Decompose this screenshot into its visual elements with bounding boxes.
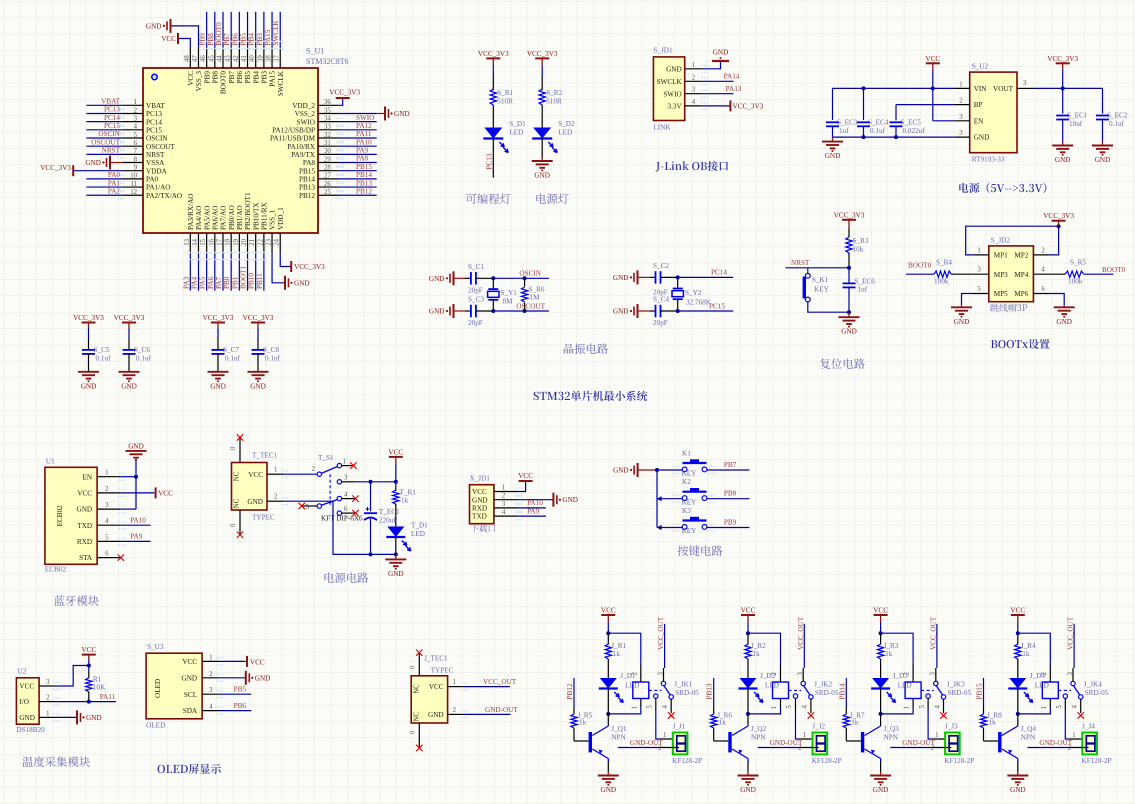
wire to relay coil [881, 633, 914, 664]
IC U2 DS18B20 body [16, 678, 39, 724]
U1 pin 24 VDD_1 [279, 233, 281, 253]
caption wen-du-cai-ji-mo-kuai [22, 756, 90, 767]
power VCC (download) [519, 480, 533, 482]
wire to C1 [454, 277, 466, 279]
svg-text:GND: GND [19, 714, 35, 722]
svg-text:2: 2 [692, 74, 696, 81]
wire [541, 66, 543, 75]
U1 pin 32 PA11/USB/DM [318, 137, 338, 139]
U1(BT) pin 2 VCC [97, 492, 121, 494]
svg-text:OLED: OLED [154, 679, 162, 698]
ground GND (JD2 pin5) [961, 306, 963, 308]
ground GND (C1) [453, 271, 455, 285]
svg-text:VIN: VIN [974, 85, 988, 93]
svg-text:5: 5 [105, 534, 109, 541]
svg-text:SWIO: SWIO [663, 90, 681, 98]
ground GND (S_C7) [217, 371, 219, 373]
TEC1 top NC pin [239, 438, 241, 463]
svg-text:VCC: VCC [161, 35, 176, 43]
svg-text:VCC_3V3: VCC_3V3 [527, 50, 558, 58]
resistor S_R2 510R [539, 89, 545, 105]
resistor S_R4 100k [934, 271, 951, 277]
ground GND (U2 left) [832, 137, 834, 142]
U1 pin 3 PC14 [123, 121, 143, 123]
wire GND rail [283, 501, 396, 554]
capacitor S_C3 20pF [465, 310, 471, 312]
svg-text:PA12: PA12 [356, 122, 372, 130]
S1 pin3 lead [342, 481, 355, 483]
svg-text:GND: GND [534, 172, 550, 180]
svg-text:VSS_1: VSS_1 [269, 209, 277, 230]
svg-text:J_Q4: J_Q4 [1021, 725, 1037, 733]
svg-text:PB1: PB1 [231, 276, 239, 289]
svg-text:PB7: PB7 [228, 71, 236, 84]
svg-text:S_C8: S_C8 [263, 346, 279, 354]
svg-text:PC15: PC15 [104, 122, 120, 130]
wire VCC to switch [283, 473, 317, 475]
wire VDD_1 [280, 253, 291, 266]
svg-text:S_EC4: S_EC4 [868, 119, 889, 127]
svg-text:14: 14 [192, 238, 199, 245]
svg-text:20pF: 20pF [653, 319, 668, 327]
JD2 pins row 2 [973, 273, 989, 275]
wire pin1 loop to VCC_3V3 [966, 226, 1059, 255]
U1 pin 19 PB1/AO [238, 233, 240, 253]
svg-text:VCC: VCC [77, 490, 92, 498]
svg-text:510R: 510R [497, 98, 513, 106]
svg-text:6: 6 [1041, 286, 1045, 293]
svg-text:2: 2 [959, 98, 963, 105]
svg-text:5: 5 [1056, 705, 1063, 709]
wire PC14 rail [678, 276, 734, 278]
svg-text:9: 9 [134, 165, 138, 172]
svg-text:PB0/AO: PB0/AO [228, 205, 236, 230]
svg-text:3: 3 [1023, 80, 1027, 87]
wire key K1 left [657, 469, 682, 471]
svg-text:PB10/TX: PB10/TX [252, 202, 260, 230]
svg-text:KEY: KEY [682, 498, 698, 506]
svg-text:22: 22 [257, 238, 264, 245]
caption fu-wei-dian-lu [820, 358, 865, 369]
LED S_D1 [484, 128, 502, 139]
svg-text:GND-OUT: GND-OUT [630, 739, 663, 747]
svg-text:MP5: MP5 [994, 290, 1008, 298]
wire net OSCIN [86, 137, 122, 139]
U1 pin 14 PA4/AO [197, 233, 199, 253]
svg-text:S_C1: S_C1 [468, 263, 484, 271]
svg-text:T_TEC1: T_TEC1 [252, 452, 278, 460]
svg-text:41: 41 [241, 55, 248, 62]
svg-text:GND: GND [250, 382, 266, 390]
svg-text:VCC: VCC [81, 646, 96, 654]
svg-text:MP4: MP4 [1014, 271, 1028, 279]
svg-text:29: 29 [324, 156, 331, 163]
svg-text:OSCIN: OSCIN [519, 270, 541, 278]
svg-text:0.1uf: 0.1uf [96, 355, 112, 363]
svg-text:GND-OUT: GND-OUT [902, 739, 935, 747]
wire net PB6 [219, 710, 252, 712]
svg-text:K1: K1 [682, 450, 691, 458]
svg-text:S_EC5: S_EC5 [901, 119, 922, 127]
wire GND bus [638, 469, 657, 471]
svg-text:28: 28 [324, 165, 331, 172]
U1(BT) pin 3 GND [97, 508, 121, 510]
svg-text:6: 6 [344, 506, 348, 513]
caption dian-yuan-dian-lu [324, 572, 368, 583]
wire VSS_1 [272, 253, 285, 282]
wire [541, 139, 543, 158]
resistor J_R8 1k [983, 707, 985, 714]
svg-text:U1: U1 [46, 458, 55, 466]
resistor J_R3 1k [880, 633, 882, 644]
svg-text:PA2: PA2 [108, 187, 121, 195]
svg-text:NC: NC [234, 498, 241, 508]
svg-text:0: 0 [410, 730, 417, 734]
JD1 pin 2 SWCLK [685, 80, 703, 82]
relay J_JK2 contacts [789, 689, 802, 691]
svg-text:PB12: PB12 [299, 192, 315, 200]
wire [848, 228, 850, 237]
svg-text:GND: GND [210, 382, 226, 390]
wire net PA1 [86, 186, 122, 188]
svg-text:GND: GND [428, 711, 444, 719]
svg-text:2: 2 [134, 107, 138, 114]
svg-text:T_D1: T_D1 [411, 522, 428, 530]
svg-text:SRD-05: SRD-05 [948, 689, 972, 697]
svg-text:2: 2 [453, 707, 457, 714]
svg-text:5: 5 [786, 705, 793, 709]
svg-text:PB10: PB10 [248, 273, 256, 289]
svg-text:VCC: VCC [472, 488, 487, 496]
wire pin6 to GND [1049, 294, 1064, 306]
svg-text:J_JK1: J_JK1 [674, 681, 692, 689]
wire net PB5 [219, 693, 252, 695]
svg-text:510R: 510R [546, 98, 562, 106]
svg-text:VCC_3V3: VCC_3V3 [1047, 55, 1078, 63]
svg-text:OSCIN: OSCIN [146, 135, 168, 143]
svg-text:PA11: PA11 [356, 130, 372, 138]
wire net NRST [86, 153, 122, 155]
svg-text:GND: GND [954, 318, 970, 326]
wire GND (oled) [219, 677, 246, 679]
svg-text:LINK: LINK [653, 124, 671, 132]
svg-text:32.768K: 32.768K [686, 299, 712, 307]
U1 pin 35 VSS_2 [318, 112, 338, 114]
svg-text:1uf: 1uf [858, 286, 868, 294]
svg-text:S_EC1: S_EC1 [1067, 112, 1088, 120]
U1 pin 9 VDDA [123, 170, 143, 172]
relay pin4 no-connect [670, 699, 672, 713]
wire to C3 [454, 310, 466, 312]
svg-text:J_TEC1: J_TEC1 [424, 655, 448, 663]
S1 pin5 lead [303, 505, 317, 507]
capacitor S_EC2 0.1uf [1102, 88, 1104, 113]
svg-text:J_J1: J_J1 [673, 723, 686, 731]
svg-text:100k: 100k [934, 278, 949, 286]
wire net PB4 [255, 12, 257, 48]
relay J_JK2 SRD-05 coil [773, 682, 789, 699]
svg-text:PA5/AO: PA5/AO [203, 206, 211, 231]
svg-text:S_D1: S_D1 [509, 120, 526, 128]
svg-text:GND: GND [247, 498, 263, 506]
svg-text:S_U1: S_U1 [306, 47, 324, 56]
wire to relay coil [1018, 633, 1051, 664]
svg-text:STM32C8T6: STM32C8T6 [306, 57, 349, 66]
wire net PA12 [338, 129, 376, 131]
svg-text:PA10/RX: PA10/RX [287, 143, 316, 151]
svg-text:PC14: PC14 [711, 269, 727, 277]
wire VDDA [73, 170, 122, 172]
svg-text:GND: GND [81, 382, 97, 390]
wire [217, 354, 219, 372]
wire net GND-OUT (ch3) [890, 747, 933, 749]
svg-text:39: 39 [257, 55, 264, 62]
capacitor S_EC5 0.022uf [890, 121, 903, 123]
wire LED to node [607, 689, 609, 714]
svg-text:VDDA: VDDA [146, 167, 168, 175]
svg-text:3: 3 [105, 502, 109, 509]
svg-text:OSCOUT: OSCOUT [146, 143, 175, 151]
crystal S_Y1 8M [492, 278, 494, 289]
svg-text:PA14: PA14 [724, 73, 740, 81]
X_JD1 pin 4 TXD [494, 515, 518, 517]
U1(BT) pin 5 RXD [97, 540, 121, 542]
relay pin4 no-connect [1080, 699, 1082, 713]
U1 pin 47 VSS_3 [197, 48, 199, 68]
svg-text:T_EC1: T_EC1 [379, 508, 400, 516]
svg-text:11: 11 [130, 181, 137, 188]
svg-text:PA10: PA10 [356, 138, 372, 146]
svg-text:1k: 1k [719, 719, 727, 727]
svg-text:S_JD2: S_JD2 [991, 237, 1011, 245]
wire net PC15 [86, 129, 122, 131]
svg-text:1: 1 [274, 467, 277, 474]
svg-text:GND: GND [77, 506, 93, 514]
svg-text:VCC: VCC [925, 55, 940, 63]
wire to C2 [638, 276, 651, 278]
svg-text:VCC_3V3: VCC_3V3 [834, 211, 865, 219]
svg-text:PB15: PB15 [976, 683, 984, 699]
svg-text:3: 3 [692, 87, 696, 94]
svg-text:GND: GND [472, 496, 488, 504]
svg-text:1M: 1M [530, 294, 541, 302]
svg-text:2: 2 [1041, 672, 1048, 676]
svg-text:VCC: VCC [158, 489, 173, 497]
svg-text:PA10: PA10 [130, 517, 146, 525]
JD2 pins row 1 [973, 254, 989, 256]
svg-text:VOUT: VOUT [993, 85, 1014, 93]
wire [808, 302, 849, 312]
transistor J_Q2 NPN [747, 714, 749, 726]
svg-text:19: 19 [233, 238, 240, 245]
svg-text:GND: GND [713, 49, 729, 57]
svg-text:VCC_OUT: VCC_OUT [1067, 616, 1075, 650]
U2 pin 3 EN [954, 120, 970, 122]
svg-text:GND: GND [388, 570, 404, 578]
svg-text:VCC_3V3: VCC_3V3 [1043, 212, 1074, 220]
svg-text:MP2: MP2 [1014, 252, 1028, 260]
LED J_D4 [1009, 678, 1026, 689]
svg-text:47: 47 [192, 55, 199, 62]
svg-text:GND: GND [86, 714, 102, 722]
svg-text:VCC_OUT: VCC_OUT [483, 678, 517, 686]
svg-text:VCC: VCC [250, 658, 265, 666]
relay J_JK3 SRD-05 coil [905, 682, 921, 699]
svg-text:OSCIN: OSCIN [98, 130, 120, 138]
caption STM32 min system [534, 391, 648, 401]
svg-text:TYPEC: TYPEC [431, 667, 454, 675]
svg-text:PB9: PB9 [199, 33, 207, 46]
svg-text:BP: BP [974, 101, 983, 109]
svg-text:K2: K2 [682, 478, 691, 486]
relay pin5 wire to J_J1 [655, 698, 657, 710]
svg-text:0.1uf: 0.1uf [265, 355, 281, 363]
svg-text:PA8: PA8 [356, 155, 369, 163]
relay pin5 wire to J_J2 [795, 698, 797, 710]
svg-text:PA6: PA6 [207, 276, 215, 289]
svg-text:J_JK3: J_JK3 [947, 681, 965, 689]
resistor S_R5 100k [1049, 273, 1065, 275]
U1 pin 11 PA1/AO [123, 186, 143, 188]
svg-text:J_J4: J_J4 [1082, 723, 1095, 731]
svg-text:PB9: PB9 [203, 71, 211, 84]
svg-text:GND: GND [613, 274, 629, 282]
svg-text:VBAT: VBAT [101, 98, 120, 106]
svg-text:0.1uf: 0.1uf [136, 355, 152, 363]
svg-text:PB12: PB12 [356, 187, 372, 195]
ground GND (oled) [245, 671, 247, 685]
wire VCC [517, 481, 525, 492]
U1 pin 17 PA7/AO [222, 233, 224, 253]
U1 pin 4 PC15 [123, 129, 143, 131]
svg-text:10k: 10k [853, 246, 864, 254]
caption BOOTx she-zhi [991, 339, 1050, 349]
svg-text:7: 7 [134, 148, 138, 155]
svg-text:PA9: PA9 [527, 507, 540, 515]
svg-text:OSCOUT: OSCOUT [516, 302, 545, 310]
svg-text:SRD-05: SRD-05 [815, 689, 839, 697]
wire net PB13 [713, 678, 715, 707]
svg-text:I/O: I/O [19, 698, 29, 706]
svg-text:OLED: OLED [146, 722, 165, 730]
relay pin5 wire to J_J4 [1064, 698, 1066, 710]
U1 pin 12 PA2/TX/AO [123, 194, 143, 196]
svg-text:VCC_3V3: VCC_3V3 [329, 89, 360, 97]
wire LED to node [880, 689, 882, 714]
ground GND (download) [552, 493, 554, 507]
svg-text:3: 3 [46, 679, 50, 686]
svg-text:TXD: TXD [472, 513, 487, 521]
svg-text:GND: GND [85, 159, 101, 167]
wire VIN rail [833, 87, 954, 89]
wire key K2 left [657, 498, 682, 500]
wire net PB3 [263, 12, 265, 48]
wire net NRST [786, 267, 850, 269]
svg-text:J_J2: J_J2 [812, 723, 825, 731]
ground GND (BT) [135, 450, 137, 452]
X_JD1 pin 2 GND [494, 499, 518, 501]
svg-text:PB3: PB3 [256, 33, 264, 46]
svg-text:LED: LED [509, 129, 523, 137]
svg-text:4: 4 [934, 705, 941, 709]
connector S_JD2 jumper body [989, 246, 1034, 302]
wire coil to node [881, 707, 914, 714]
LED T_D1 [387, 527, 404, 538]
svg-text:BOOT1: BOOT1 [240, 265, 248, 289]
svg-text:PB6: PB6 [231, 33, 239, 46]
svg-text:VCC: VCC [388, 448, 403, 456]
ground GND (C2) [637, 270, 639, 284]
ground GND (S_C5) [88, 371, 90, 373]
svg-text:8M: 8M [503, 298, 514, 306]
wire net VCC_OUT (ch3) [936, 624, 938, 668]
wire PC15 rail [678, 310, 734, 312]
svg-text:SCL: SCL [184, 691, 197, 699]
svg-text:S_C4: S_C4 [653, 296, 669, 304]
svg-text:20: 20 [241, 238, 248, 245]
svg-text:PB14: PB14 [299, 175, 315, 183]
U1 pin 43 PB7 [230, 48, 232, 68]
U1 pin 20 PB2/BOOT1 [247, 233, 249, 253]
svg-text:PB7: PB7 [724, 461, 737, 469]
crystal S_Y2 32.768K [677, 277, 679, 288]
svg-text:VCC: VCC [1010, 607, 1025, 615]
svg-text:PA4/AO: PA4/AO [195, 206, 203, 231]
svg-text:EN: EN [83, 473, 93, 481]
svg-text:SRD-05: SRD-05 [1085, 689, 1109, 697]
ground GND (VSSA) [109, 156, 111, 170]
svg-text:NRST: NRST [146, 151, 165, 159]
U1(BT) pin 1 EN [97, 476, 121, 478]
svg-text:1: 1 [1041, 706, 1048, 709]
svg-text:GND: GND [740, 786, 756, 794]
wire net VBAT [86, 104, 122, 106]
label tiao-xian-mao-3P [990, 304, 1027, 312]
wire net PB0 [230, 253, 232, 290]
relay pin4 no-connect [943, 699, 945, 713]
wire base [846, 740, 861, 742]
JD1 pin 4 3.3V [685, 105, 703, 107]
connector T_TEC1 TYPEC body [232, 463, 268, 511]
svg-text:VCC_OUT: VCC_OUT [797, 616, 805, 650]
svg-text:2: 2 [105, 486, 109, 493]
svg-text:GND: GND [613, 308, 629, 316]
power VCC (pin48) [177, 33, 179, 44]
capacitor S_C8 0.1uf [252, 349, 265, 351]
ground GND (powerckt) [395, 554, 397, 559]
wire VCC to VIN and EN [932, 70, 934, 121]
svg-text:LED: LED [558, 129, 572, 137]
svg-text:3: 3 [797, 672, 804, 676]
S1 pin4 lead [342, 498, 355, 500]
wire GND to EN and GND pins [135, 459, 137, 509]
wire net SWIO [338, 121, 376, 123]
svg-text:26: 26 [324, 181, 331, 188]
svg-text:GND: GND [974, 134, 990, 142]
svg-text:PA2/TX/AO: PA2/TX/AO [146, 192, 182, 200]
U1 pin 30 PA9/TX [318, 153, 338, 155]
wire BP [896, 104, 954, 106]
svg-text:S_C2: S_C2 [653, 262, 669, 270]
svg-text:PA9: PA9 [356, 147, 369, 155]
wire net PA10 (BT) [121, 524, 151, 526]
svg-text:0.1uf: 0.1uf [1109, 120, 1125, 128]
svg-text:PB5: PB5 [234, 686, 247, 694]
svg-text:15: 15 [200, 238, 207, 245]
wire BOOT0 right [1084, 273, 1114, 275]
wire net PA15 [271, 12, 273, 48]
svg-text:PA12/USB/DP: PA12/USB/DP [272, 126, 315, 134]
